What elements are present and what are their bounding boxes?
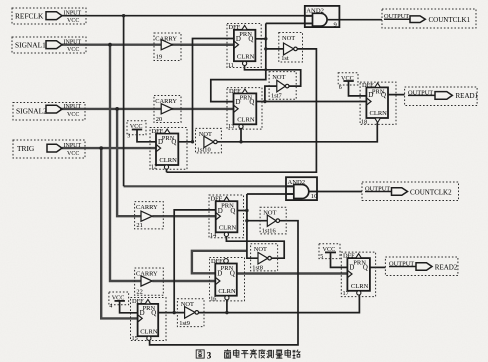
svg-text:CLRN: CLRN xyxy=(237,116,255,123)
svg-text:D: D xyxy=(158,139,163,146)
svg-text:CLRN: CLRN xyxy=(237,53,255,60)
svg-text:Q: Q xyxy=(151,310,156,317)
svg-text:AND2: AND2 xyxy=(306,8,324,15)
svg-text:CARRY: CARRY xyxy=(155,98,177,105)
svg-text:DFF: DFF xyxy=(229,88,241,95)
svg-text:CLRN: CLRN xyxy=(140,328,158,335)
svg-text:NOT: NOT xyxy=(254,246,267,253)
svg-text:CLRN: CLRN xyxy=(159,157,177,164)
svg-text:1st7: 1st7 xyxy=(271,93,282,100)
svg-text:4: 4 xyxy=(109,303,112,309)
svg-text:NOT: NOT xyxy=(272,74,285,81)
svg-text:10: 10 xyxy=(311,193,318,200)
svg-text:Q: Q xyxy=(381,92,386,99)
svg-text:DFF: DFF xyxy=(229,24,241,31)
svg-text:OUTPUT: OUTPUT xyxy=(365,185,390,192)
svg-text:DFF: DFF xyxy=(343,253,355,260)
svg-text:INPUT: INPUT xyxy=(64,11,82,17)
svg-text:CARRY: CARRY xyxy=(136,204,158,211)
svg-text:CARRY: CARRY xyxy=(136,270,158,277)
svg-text:VCC: VCC xyxy=(67,151,79,157)
svg-text:1st9: 1st9 xyxy=(179,320,190,327)
svg-text:CARRY: CARRY xyxy=(155,35,177,42)
svg-text:COUNTCLK2: COUNTCLK2 xyxy=(410,188,452,196)
svg-text:READ1: READ1 xyxy=(456,92,479,100)
svg-text:22: 22 xyxy=(136,288,142,295)
svg-text:D: D xyxy=(236,99,241,106)
svg-text:Q: Q xyxy=(230,271,235,278)
svg-text:SIGNAL1: SIGNAL1 xyxy=(15,40,46,49)
svg-text:DFF: DFF xyxy=(132,298,144,305)
svg-text:VCC: VCC xyxy=(323,246,336,253)
svg-text:DFF: DFF xyxy=(211,196,223,203)
svg-text:DFF: DFF xyxy=(362,82,374,89)
svg-text:6: 6 xyxy=(339,85,342,91)
svg-text:NOT: NOT xyxy=(263,210,276,217)
svg-text:CLRN: CLRN xyxy=(219,224,237,231)
svg-text:NOT: NOT xyxy=(282,35,295,42)
svg-text:D: D xyxy=(218,208,223,215)
svg-text:15: 15 xyxy=(132,335,138,342)
svg-text:INPUT: INPUT xyxy=(64,143,82,149)
svg-text:NOT: NOT xyxy=(181,301,194,308)
svg-text:11: 11 xyxy=(228,62,234,69)
svg-text:19: 19 xyxy=(156,53,162,60)
svg-text:13: 13 xyxy=(228,123,234,130)
svg-text:1st16: 1st16 xyxy=(262,228,276,235)
svg-text:DFF: DFF xyxy=(211,258,223,265)
svg-text:OUTPUT: OUTPUT xyxy=(408,89,433,96)
svg-text:1st8: 1st8 xyxy=(252,265,263,272)
svg-text:D: D xyxy=(236,36,241,43)
svg-text:VCC: VCC xyxy=(341,75,354,82)
svg-text:14: 14 xyxy=(210,232,216,239)
svg-text:18: 18 xyxy=(361,119,367,126)
svg-text:VCC: VCC xyxy=(67,47,79,53)
svg-text:REFCLK: REFCLK xyxy=(15,11,44,20)
svg-text:Q: Q xyxy=(363,265,368,272)
svg-text:OUTPUT: OUTPUT xyxy=(384,13,409,20)
svg-text:AND2: AND2 xyxy=(288,179,306,186)
svg-text:12: 12 xyxy=(151,164,157,171)
svg-text:1st10: 1st10 xyxy=(197,146,211,153)
svg-text:21: 21 xyxy=(136,222,142,229)
svg-text:Q: Q xyxy=(249,99,254,106)
svg-text:INPUT: INPUT xyxy=(64,40,82,46)
svg-text:D: D xyxy=(217,271,222,278)
svg-text:SIGNAL2: SIGNAL2 xyxy=(16,107,47,116)
svg-text:CLRN: CLRN xyxy=(351,283,369,290)
svg-text:D: D xyxy=(349,265,354,272)
svg-text:17: 17 xyxy=(343,290,349,297)
svg-text:COUNTCLK1: COUNTCLK1 xyxy=(429,16,471,24)
svg-text:OUTPUT: OUTPUT xyxy=(389,260,414,267)
svg-text:VCC: VCC xyxy=(112,294,125,301)
svg-text:3: 3 xyxy=(127,133,130,139)
svg-text:VCC: VCC xyxy=(67,112,79,118)
svg-text:D: D xyxy=(140,310,145,317)
svg-text:TRIG: TRIG xyxy=(17,144,35,153)
svg-text:Q: Q xyxy=(230,208,235,215)
svg-text:Q: Q xyxy=(248,36,253,43)
svg-text:CLRN: CLRN xyxy=(218,288,236,295)
svg-text:5: 5 xyxy=(320,254,323,260)
svg-text:20: 20 xyxy=(156,116,162,123)
svg-text:CLRN: CLRN xyxy=(370,110,388,117)
svg-text:16: 16 xyxy=(210,295,216,302)
svg-text:1st: 1st xyxy=(281,55,289,62)
svg-text:3: 3 xyxy=(207,350,212,360)
svg-text:NOT: NOT xyxy=(199,131,212,138)
svg-text:D: D xyxy=(368,92,373,99)
svg-text:INPUT: INPUT xyxy=(64,104,82,110)
svg-text:DFF: DFF xyxy=(152,128,164,135)
svg-text:READ2: READ2 xyxy=(435,263,458,271)
svg-text:VCC: VCC xyxy=(130,123,143,130)
svg-text:VCC: VCC xyxy=(67,18,79,24)
svg-text:Q: Q xyxy=(171,139,176,146)
